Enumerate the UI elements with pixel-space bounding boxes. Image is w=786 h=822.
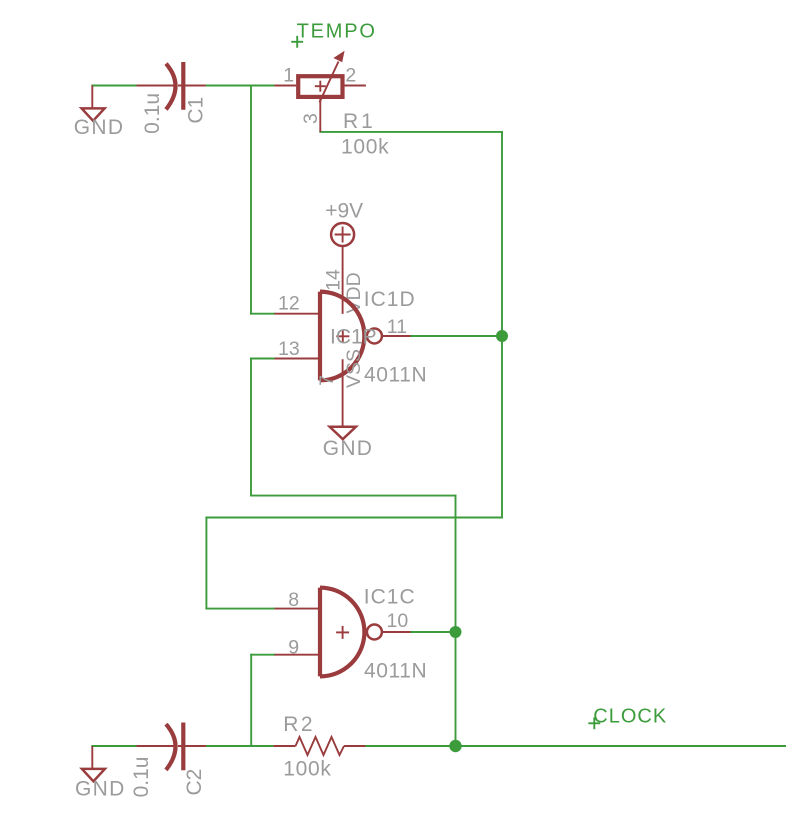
svg-text:GND: GND xyxy=(323,437,374,460)
svg-text:13: 13 xyxy=(278,338,300,360)
wire net CLOCK from IC1C output xyxy=(411,631,456,633)
svg-text:C2: C2 xyxy=(183,769,206,796)
wire net N$3 stub to pin 8 xyxy=(206,608,274,610)
wire net N$1 stub to pin 12 xyxy=(251,313,275,315)
wire net N$1 top horizontal left segment xyxy=(92,85,136,87)
value 0.1u of C2 (rotated) xyxy=(130,757,153,798)
svg-text:CLOCK: CLOCK xyxy=(593,706,667,728)
wire net CLOCK between C2 and R2 xyxy=(206,745,274,747)
value 4011N of IC1D xyxy=(364,363,427,386)
wire net CLOCK vertical from pin 9 xyxy=(250,655,252,746)
wire net N$2 vertical to CLOCK junctions xyxy=(455,496,457,746)
svg-text:0.1u: 0.1u xyxy=(141,93,164,134)
pin number 10 xyxy=(387,610,409,632)
name R2 xyxy=(283,713,315,736)
svg-text:C1: C1 xyxy=(185,97,208,124)
label GND under IC1D xyxy=(323,437,374,460)
pin number 3 of R1 (rotated) xyxy=(300,113,322,124)
svg-text:11: 11 xyxy=(387,316,407,338)
pin 14 VDD wire from supply xyxy=(342,246,344,314)
pin number 7 (rotated) xyxy=(316,375,338,386)
value 0.1u of C1 (rotated) xyxy=(141,93,164,134)
resistor R2 xyxy=(274,737,366,755)
svg-text:TEMPO: TEMPO xyxy=(297,21,377,43)
svg-text:IC1D: IC1D xyxy=(364,288,416,311)
pin number 8 xyxy=(288,589,299,611)
name C2 (rotated) xyxy=(183,769,206,796)
pin number 2 of R1 xyxy=(345,65,356,87)
pin number 1 of R1 xyxy=(283,65,294,87)
svg-text:1: 1 xyxy=(283,65,294,87)
svg-text:10: 10 xyxy=(387,610,409,632)
supply symbol +9V xyxy=(331,223,354,246)
value 100k of R2 xyxy=(283,757,331,780)
pin number 14 (rotated) xyxy=(323,269,345,291)
svg-text:R2: R2 xyxy=(283,713,315,736)
junction at CLOCK bottom wire xyxy=(449,740,461,752)
svg-text:8: 8 xyxy=(288,589,299,611)
label CLOCK xyxy=(593,706,667,728)
svg-text:3: 3 xyxy=(300,113,322,124)
name C1 (rotated) xyxy=(185,97,208,124)
pin number 9 xyxy=(288,636,299,658)
wire net N$3 from R1 pin 3 horizontal xyxy=(320,131,502,133)
NAND gate IC1C xyxy=(275,588,411,677)
junction at IC1D output xyxy=(496,330,508,342)
label +9V xyxy=(325,200,363,223)
junction at IC1C output xyxy=(450,626,462,638)
wire net N$3 horizontal lower xyxy=(206,517,502,519)
origin cross of CLOCK label xyxy=(589,718,599,728)
ground symbol GND top-left xyxy=(82,86,105,121)
name IC1D xyxy=(364,288,416,311)
svg-text:GND: GND xyxy=(74,116,125,139)
pin 7 VSS wire to ground xyxy=(342,359,344,426)
pin number 11 xyxy=(387,316,407,338)
value 4011N of IC1C xyxy=(364,660,427,683)
wire net CLOCK bottom left segment xyxy=(92,745,136,747)
capacitor C1 xyxy=(137,62,206,110)
ground symbol GND bottom-left xyxy=(82,746,105,781)
label GND bottom-left xyxy=(75,778,126,801)
hidden gate name IC1P xyxy=(330,325,377,348)
svg-text:4011N: 4011N xyxy=(364,660,427,683)
ground symbol GND under IC1D xyxy=(330,427,356,439)
pin name VSS (rotated) xyxy=(343,349,365,388)
name R1 xyxy=(343,110,376,133)
svg-text:R1: R1 xyxy=(343,110,376,133)
wire net CLOCK stub from pin 9 xyxy=(251,654,274,656)
pin number 12 xyxy=(278,293,300,315)
svg-text:0.1u: 0.1u xyxy=(130,757,153,798)
svg-text:GND: GND xyxy=(75,778,126,801)
capacitor C2 xyxy=(137,723,207,771)
wire net N$3 vertical to pin 8 xyxy=(205,518,207,609)
name IC1C xyxy=(364,586,416,609)
wire net N$1 vertical branch to pin 12 xyxy=(250,86,252,314)
svg-text:VSS: VSS xyxy=(343,349,365,388)
svg-text:IC1P: IC1P xyxy=(330,325,377,348)
wire net CLOCK bottom right to edge xyxy=(365,745,786,747)
pin number 13 xyxy=(278,338,300,360)
wire net N$1 top horizontal right segment xyxy=(206,85,275,87)
svg-text:12: 12 xyxy=(278,293,300,315)
wire net N$2 horizontal crossover xyxy=(251,495,456,497)
svg-text:100k: 100k xyxy=(283,757,331,780)
potentiometer R1 (TEMPO) xyxy=(274,51,366,132)
svg-text:IC1C: IC1C xyxy=(364,586,416,609)
svg-text:14: 14 xyxy=(323,269,345,291)
label GND top-left xyxy=(74,116,125,139)
svg-text:4011N: 4011N xyxy=(364,363,427,386)
origin cross of TEMPO label xyxy=(292,37,302,47)
NAND gate IC1D xyxy=(275,292,411,381)
svg-text:7: 7 xyxy=(316,375,338,386)
wire net N$3 vertical right side xyxy=(501,132,503,518)
wire net N$2 stub from pin 13 xyxy=(251,358,275,360)
wire net N$3 from IC1D output xyxy=(411,335,503,337)
pin name VDD (rotated) xyxy=(343,272,365,313)
wire net N$2 vertical from pin 13 xyxy=(250,359,252,496)
label TEMPO xyxy=(297,21,377,43)
svg-text:+9V: +9V xyxy=(325,200,363,223)
svg-text:100k: 100k xyxy=(341,136,389,159)
svg-text:9: 9 xyxy=(288,636,299,658)
svg-text:2: 2 xyxy=(345,65,356,87)
value 100k of R1 xyxy=(341,136,389,159)
